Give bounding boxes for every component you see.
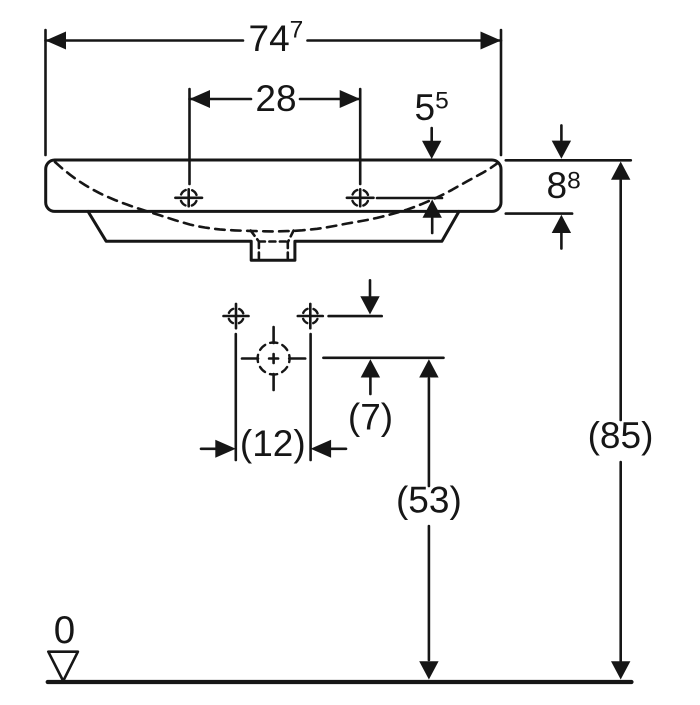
- hidden drain funnel right slant dashed: [288, 231, 293, 242]
- extension line right of 12 dim: [309, 334, 312, 460]
- drain connection level line: [323, 356, 443, 359]
- arrowhead 28 left: [190, 90, 211, 108]
- dimension line 85 lower segment: [619, 462, 622, 661]
- extension line right of overall width dim: [500, 30, 503, 155]
- arrowhead 5_5 up: [423, 200, 442, 218]
- washbasin body outline: [46, 160, 501, 211]
- arrowhead 12 left pointing right: [215, 440, 236, 458]
- svg-text:(12): (12): [240, 423, 306, 464]
- extension line top for 8_8 and 85 dims: [506, 159, 631, 162]
- dimension line 74_7 right segment: [308, 39, 502, 42]
- washbasin lower pedestal outline with drain notch: [88, 211, 459, 260]
- arrowhead 5_5 down: [422, 141, 441, 159]
- svg-text:(85): (85): [588, 415, 654, 456]
- drain symbol crosshair and dashed circle: [242, 327, 305, 390]
- svg-text:(53): (53): [396, 479, 462, 520]
- dimension line 28 right segment: [300, 98, 360, 101]
- hidden drain left wall dashed: [258, 242, 261, 259]
- extension line left of 28 dim: [188, 89, 191, 184]
- hidden drain right wall dashed: [286, 242, 289, 259]
- arrowhead 7 down: [360, 296, 379, 314]
- arrowhead 12 right pointing left: [311, 440, 332, 458]
- dimension line 28 left segment: [190, 98, 252, 101]
- arrowhead 74_7 left: [46, 32, 67, 50]
- mounting hole crosshair left: [224, 304, 249, 328]
- extension line right of 28 dim: [359, 89, 362, 184]
- arrowhead 85 up: [611, 162, 630, 180]
- tap hole crosshair right: [347, 189, 374, 206]
- arrow 5_5 up tail: [431, 218, 434, 233]
- arrowhead 8_8 up: [552, 215, 571, 233]
- arrow 8_8 down tail: [560, 125, 563, 140]
- arrow 8_8 up tail: [560, 233, 563, 249]
- svg-text:55: 55: [415, 87, 449, 128]
- hidden drain top edge dashed: [259, 240, 288, 243]
- arrow 7 up tail: [369, 378, 372, 395]
- arrowhead 53 up: [419, 359, 438, 377]
- arrowhead 85 down: [611, 661, 630, 679]
- arrowhead 7 up: [361, 359, 380, 377]
- floor line: [48, 680, 632, 684]
- arrow 7 down tail: [369, 280, 372, 296]
- dimension line 53 upper segment: [428, 379, 431, 487]
- svg-text:28: 28: [255, 78, 296, 119]
- tap connection level line: [329, 315, 382, 318]
- arrow 5_5 down tail: [430, 128, 433, 141]
- dimension line 74_7 left segment: [46, 39, 244, 42]
- arrowhead 28 right: [340, 90, 361, 108]
- dimension line 85 upper segment: [619, 180, 622, 420]
- extension line left of overall width dim: [44, 30, 47, 155]
- arrowhead 8_8 down: [552, 141, 571, 159]
- datum triangle: [48, 652, 78, 681]
- arrowhead 53 down: [419, 661, 438, 679]
- arrow 12 left tail: [201, 447, 216, 450]
- arrowhead 74_7 right: [481, 32, 502, 50]
- tap hole crosshair left: [175, 189, 202, 206]
- svg-text:747: 747: [249, 17, 304, 60]
- dimension line 53 lower segment: [428, 526, 431, 660]
- extension line bottom for 8_8 dim: [506, 212, 572, 215]
- extension line left of 12 dim: [235, 334, 238, 460]
- mounting hole crosshair right: [298, 304, 323, 328]
- svg-text:0: 0: [54, 609, 75, 652]
- svg-text:88: 88: [547, 165, 581, 206]
- hidden drain funnel left slant dashed: [251, 231, 259, 242]
- tap deck level line: [377, 197, 442, 200]
- arrow 12 right tail: [331, 447, 346, 450]
- svg-text:(7): (7): [348, 397, 393, 438]
- hidden bowl contour dashed curve: [55, 162, 497, 231]
